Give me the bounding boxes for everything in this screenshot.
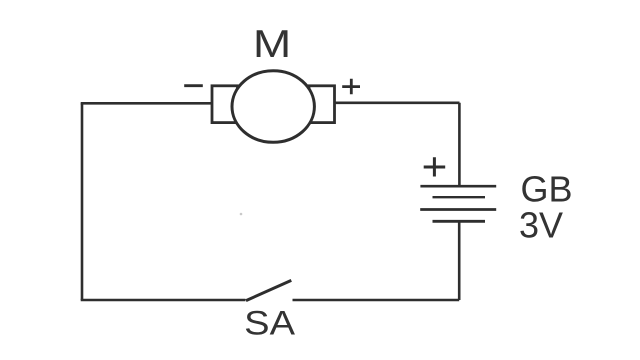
svg-text:M: M (253, 23, 291, 66)
svg-text:SA: SA (244, 305, 295, 343)
svg-text:3V: 3V (519, 205, 563, 246)
svg-text:GB: GB (521, 168, 573, 209)
